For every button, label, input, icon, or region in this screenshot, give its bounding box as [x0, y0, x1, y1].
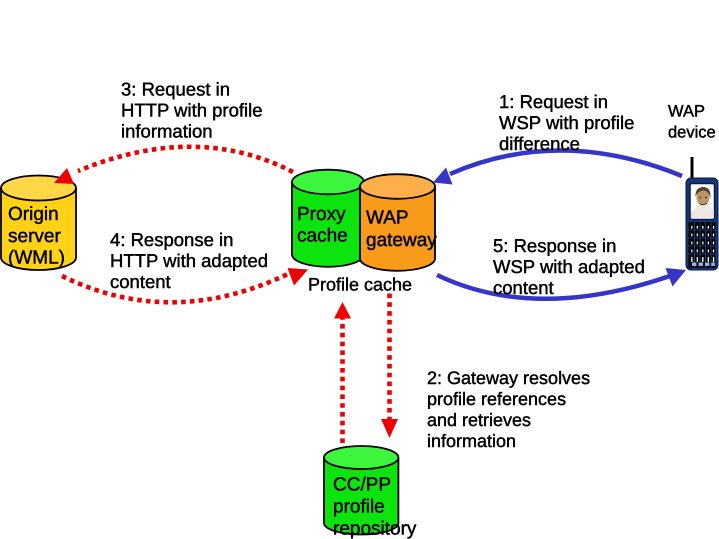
svg-text:Origin: Origin: [8, 204, 59, 225]
CC/PP profile repository cylinder: [324, 446, 417, 539]
WAP device phone: [686, 157, 718, 270]
face photo: [691, 187, 714, 218]
label Profile cache: [308, 275, 412, 295]
antenna: [691, 157, 694, 181]
svg-text:3: Request in: 3: Request in: [121, 79, 230, 100]
screen: [690, 184, 715, 220]
svg-text:5: Response in: 5: Response in: [493, 235, 616, 256]
svg-text:and retrieves: and retrieves: [427, 410, 531, 430]
svg-text:WAP: WAP: [668, 103, 705, 121]
origin server cylinder: [1, 176, 76, 271]
label 5: Response in WSP with adapted content: [493, 235, 645, 298]
svg-text:difference: difference: [499, 133, 580, 154]
body: [686, 178, 718, 270]
svg-text:information: information: [121, 121, 213, 142]
label 2: Gateway resolves profile references and retrieves information: [427, 368, 590, 451]
svg-text:Proxy: Proxy: [297, 204, 346, 225]
svg-text:WSP with adapted: WSP with adapted: [493, 256, 645, 277]
svg-text:gateway: gateway: [366, 230, 437, 251]
svg-text:WSP with profile: WSP with profile: [499, 112, 634, 133]
red dotted curve bottom (4: response HTTP): [62, 268, 308, 302]
svg-text:information: information: [427, 431, 516, 451]
label 1: Request in WSP with profile difference: [499, 91, 634, 154]
label 4: Response in HTTP with adapted content: [110, 229, 268, 292]
svg-text:CC/PP: CC/PP: [333, 475, 391, 496]
arrowhead at WAP gateway: [433, 168, 453, 185]
red dotted arrow down (to repository, pointing down): [381, 294, 398, 439]
svg-text:Profile cache: Profile cache: [308, 275, 412, 295]
arrowhead at origin server: [54, 168, 74, 184]
arrowhead at proxy cache: [288, 268, 309, 286]
svg-text:profile references: profile references: [427, 389, 566, 409]
proxy cache cylinder: [292, 170, 364, 267]
keypad: [689, 222, 716, 268]
svg-text:server: server: [8, 226, 61, 247]
svg-text:profile: profile: [333, 497, 385, 518]
svg-text:HTTP with adapted: HTTP with adapted: [110, 250, 268, 271]
red dotted arrow up (profile cache to repository, pointing up): [334, 302, 351, 443]
svg-text:4: Response in: 4: Response in: [110, 229, 233, 250]
label 3: Request in HTTP with profile information: [121, 79, 263, 142]
blue curve top (1: request WSP): [433, 150, 682, 184]
svg-text:device: device: [668, 124, 716, 142]
svg-text:content: content: [493, 277, 554, 298]
svg-text:2: Gateway resolves: 2: Gateway resolves: [427, 368, 590, 388]
svg-text:1: Request in: 1: Request in: [499, 91, 608, 112]
blue curve bottom (5: response WSP): [437, 268, 686, 299]
label WAP device: [668, 103, 716, 142]
svg-text:repository: repository: [333, 519, 417, 539]
svg-text:HTTP with profile: HTTP with profile: [121, 100, 263, 121]
svg-text:content: content: [110, 271, 171, 292]
WAP gateway cylinder: [360, 174, 437, 271]
red dotted curve top (3: request HTTP): [54, 147, 293, 184]
arrowhead at WAP device: [666, 268, 687, 287]
svg-text:cache: cache: [297, 226, 348, 247]
svg-text:WAP: WAP: [366, 208, 409, 229]
svg-text:(WML): (WML): [8, 248, 65, 269]
